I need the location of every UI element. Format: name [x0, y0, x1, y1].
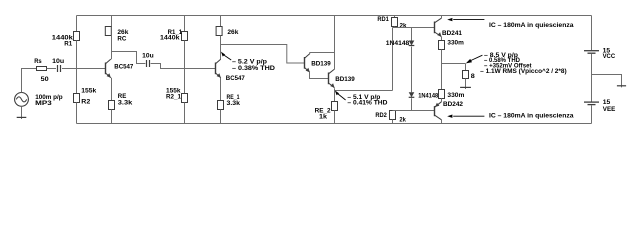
transistor Q5 BD241 — [435, 18, 442, 37]
transistor Q1 BC547 — [106, 59, 111, 78]
annotation arrow collector Q2 — [221, 52, 231, 60]
ground source — [17, 106, 27, 119]
label RE_1 value 3.3k — [227, 100, 241, 107]
capacitor Cin 10u — [58, 65, 61, 72]
svg-text:8: 8 — [471, 73, 475, 80]
resistor R1 1440k — [74, 16, 80, 69]
svg-text:3.3k: 3.3k — [227, 100, 241, 107]
label source value — [35, 94, 63, 107]
svg-text:BD139: BD139 — [311, 60, 331, 67]
wire VCC rail to battery — [591, 16, 593, 51]
annotation text output — [480, 53, 567, 75]
label C2 10u — [142, 53, 154, 60]
node Q4 emitter — [0, 0, 1, 1]
label Q1 BC547 — [114, 63, 133, 70]
label R1_1 value — [160, 35, 180, 42]
svg-text:BC547: BC547 — [114, 63, 133, 70]
svg-text:26k: 26k — [227, 29, 238, 36]
label RE_1 — [227, 94, 240, 101]
svg-text:– 0.38% THD: – 0.38% THD — [232, 65, 275, 72]
label R330b value — [447, 92, 464, 99]
wire Cin to Q1 base — [62, 68, 106, 70]
wire Q5 collector to rail — [441, 16, 443, 19]
capacitor C2 10u — [147, 60, 150, 67]
wire mid to ground — [592, 75, 622, 86]
resistor Rs 50 — [37, 67, 47, 71]
resistor R2_1 155k — [182, 69, 188, 124]
wire node A — [393, 27, 435, 29]
resistor RC_1 26k — [216, 16, 222, 60]
wire Q3 collector up — [310, 53, 335, 54]
label Q3 BD139 — [311, 60, 331, 67]
resistor RC 26k — [105, 16, 111, 60]
resistor R330a 330m — [439, 37, 445, 64]
wire Q3 emitter to Q4 base — [310, 72, 329, 78]
annotation text IC bottom — [489, 112, 574, 119]
label R1_1 — [168, 29, 183, 36]
label R2 — [81, 98, 90, 105]
svg-text:– 0.41% THD: – 0.41% THD — [347, 100, 388, 106]
svg-text:1k: 1k — [319, 113, 327, 120]
annotation text IC top — [489, 22, 574, 29]
label Rs — [34, 58, 42, 65]
resistor RD1 2k — [392, 16, 398, 28]
svg-text:10u: 10u — [142, 53, 154, 60]
svg-text:BC547: BC547 — [226, 75, 245, 82]
svg-text:1440k: 1440k — [160, 35, 180, 42]
label Rs value 50 — [41, 76, 49, 83]
wire VCC top rail — [77, 15, 592, 17]
resistor RE 3.3k — [109, 78, 115, 124]
label RE_2 value 1k — [319, 113, 327, 120]
svg-text:RD1: RD1 — [377, 16, 389, 23]
svg-text:3.3k: 3.3k — [118, 99, 133, 106]
svg-text:BD139: BD139 — [335, 76, 355, 83]
resistor RD2 2k — [390, 111, 396, 124]
svg-text:155k: 155k — [81, 87, 96, 94]
label V1 — [603, 47, 616, 60]
annotation arrow IC top — [447, 18, 484, 21]
annotation arrow Q4 emitter — [335, 90, 346, 100]
wire Q1 collector branch — [112, 52, 146, 64]
label RE value 3.3k — [118, 99, 133, 106]
label RD1 value 2k — [400, 23, 407, 30]
wire Q6 collector to rail — [441, 120, 443, 124]
wire Q4 emitter to node A link — [335, 28, 393, 91]
resistor RE_2 1k — [332, 88, 338, 123]
annotation arrow IC bottom — [447, 115, 484, 118]
resistor RE_1 3.3k — [218, 78, 224, 124]
wire output node — [442, 64, 466, 90]
label R2_1 value — [166, 87, 181, 94]
svg-text:IC – 180mA in quiescienza: IC – 180mA in quiescienza — [489, 112, 574, 119]
label R1 value — [52, 35, 73, 42]
diode D2 1N4148 — [409, 92, 415, 110]
annotation arrow output — [466, 55, 483, 63]
svg-text:MP3: MP3 — [35, 100, 52, 107]
svg-text:– 1.1W RMS (Vpicco^2 / 2*8): – 1.1W RMS (Vpicco^2 / 2*8) — [480, 69, 567, 75]
svg-text:Rs: Rs — [34, 58, 42, 65]
wire VEE bottom rail — [77, 123, 592, 125]
wire battery V1 to mid — [591, 54, 593, 75]
svg-text:1N4148: 1N4148 — [386, 40, 410, 47]
svg-text:IC – 180mA in quiescienza: IC – 180mA in quiescienza — [489, 22, 574, 29]
label RC_1 value 26k — [227, 29, 238, 36]
wire Q6 emitter — [441, 98, 443, 101]
battery V1 15 VCC — [584, 51, 599, 54]
svg-text:10u: 10u — [52, 58, 64, 65]
svg-text:330m: 330m — [447, 39, 464, 46]
label D1 1N4148 — [386, 40, 410, 47]
wire C2 to Q2 base — [151, 64, 216, 69]
transistor Q3 BD139 — [305, 54, 310, 73]
svg-text:330m: 330m — [447, 92, 464, 99]
label R2_1 — [166, 94, 181, 101]
ground load — [460, 86, 471, 89]
wire mid to battery V2 — [591, 75, 593, 102]
label Q2 BC547 — [226, 75, 245, 82]
label D2 1N4148 — [418, 93, 438, 100]
wire Rs to Cin — [47, 68, 57, 70]
svg-text:50: 50 — [41, 76, 49, 83]
wire BD139 collectors to rail — [334, 16, 336, 70]
svg-text:RC: RC — [117, 36, 126, 43]
resistor R2 155k — [74, 69, 80, 124]
svg-text:2k: 2k — [399, 117, 406, 124]
label RE_2 — [315, 107, 331, 114]
resistor R1_1 1440k — [182, 16, 188, 69]
svg-text:R1: R1 — [64, 40, 72, 47]
label Q4 BD139 — [335, 76, 355, 83]
ground supply mid — [617, 84, 626, 87]
label Q5 BD241 — [442, 30, 462, 37]
label RE — [118, 93, 127, 100]
label RD2 — [375, 112, 387, 119]
annotation text 5.2V — [232, 58, 275, 72]
label R330a value — [447, 39, 464, 46]
svg-text:BD241: BD241 — [442, 30, 462, 37]
svg-text:2k: 2k — [400, 23, 407, 30]
wire node B — [393, 110, 435, 112]
diode D1 1N4148 — [409, 28, 415, 93]
resistor R330b 330m — [439, 90, 445, 102]
battery V2 15 VEE — [584, 102, 599, 105]
annotation text 5.1V — [347, 95, 388, 106]
svg-text:BD242: BD242 — [443, 101, 463, 108]
resistor Rload 8 — [463, 64, 469, 87]
label Q6 BD242 — [443, 101, 463, 108]
wire source to Rs — [22, 69, 37, 93]
svg-text:RD2: RD2 — [375, 112, 387, 119]
label Cin 10u — [52, 58, 64, 65]
svg-text:VEE: VEE — [603, 106, 616, 113]
svg-text:R2_1: R2_1 — [166, 94, 181, 101]
transistor Q4 BD139 — [329, 69, 335, 88]
transistor Q6 BD242 — [435, 102, 442, 120]
label RC value 26k — [117, 29, 128, 36]
svg-text:1N4148: 1N4148 — [418, 93, 438, 100]
label RC — [117, 36, 126, 43]
label R2 value — [81, 87, 96, 94]
svg-text:VCC: VCC — [603, 53, 616, 60]
wire Q2 collector to Q3 base — [221, 45, 305, 64]
label Rload value 8 — [471, 73, 475, 80]
node mid supply — [0, 0, 1, 1]
label V2 — [603, 99, 616, 113]
source MP3 100m p/p — [15, 93, 29, 107]
node stage1 bias junction — [0, 0, 1, 1]
label RD2 value 2k — [399, 117, 406, 124]
svg-text:R2: R2 — [81, 98, 90, 105]
label RD1 — [377, 16, 389, 23]
wire battery V2 to rail — [591, 105, 593, 123]
label R1 — [64, 40, 72, 47]
transistor Q2 BC547 — [216, 59, 221, 78]
